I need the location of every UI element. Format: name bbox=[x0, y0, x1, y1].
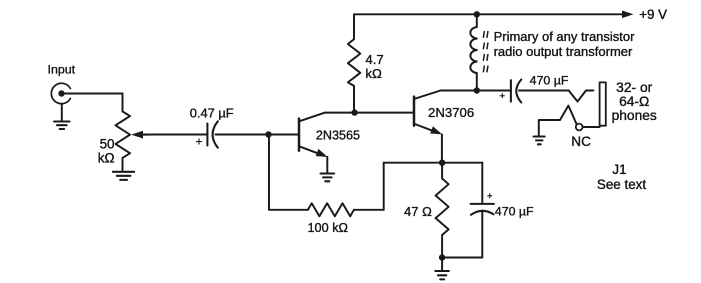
jack J1 tip spring contact bbox=[569, 91, 594, 102]
transformer T1 core marks bbox=[483, 32, 488, 72]
node B dot (Q1 collector / R2 bottom) bbox=[351, 109, 357, 115]
svg-text:Primary of any transistor: Primary of any transistor bbox=[494, 29, 636, 44]
node D dot (emitter node) bbox=[439, 160, 445, 166]
wire C1 to Q1 base bbox=[216, 134, 299, 136]
transistor Q2 emitter arrow bbox=[430, 126, 442, 134]
capacitor C2 curved plate bbox=[516, 80, 521, 103]
node dot rail/transformer bbox=[474, 11, 480, 17]
connector center pin dot bbox=[58, 90, 64, 96]
wire down to C3 top plate bbox=[481, 163, 483, 204]
svg-text:0.47 µF: 0.47 µF bbox=[190, 106, 234, 121]
svg-text:47 Ω: 47 Ω bbox=[404, 204, 432, 219]
connector J-input circle bbox=[51, 83, 70, 103]
svg-text:4.7: 4.7 bbox=[365, 52, 383, 67]
potentiometer R1 50k body bbox=[116, 94, 131, 172]
svg-text:470 µF: 470 µF bbox=[495, 204, 534, 218]
wire C3 bottom to node E bbox=[442, 211, 482, 258]
ground (emitter network) bbox=[435, 271, 449, 279]
jack J1 plug body bbox=[600, 82, 606, 125]
wire connector to ground bbox=[61, 104, 63, 122]
transistor Q2 emitter bbox=[415, 124, 440, 133]
svg-text:+: + bbox=[487, 191, 493, 202]
wire feedback bottom right segment bbox=[354, 209, 384, 211]
capacitor C2 470uF left plate bbox=[510, 80, 512, 101]
wire Q1 emitter to ground bbox=[326, 157, 328, 173]
transistor Q1 2N3565 base bar bbox=[298, 119, 301, 151]
svg-text:32- or: 32- or bbox=[616, 80, 652, 95]
transistor Q1 emitter arrow bbox=[316, 149, 328, 157]
ground (Q1 emitter) bbox=[321, 174, 335, 182]
capacitor C3 470uF top plate bbox=[471, 203, 494, 205]
node C dot (transformer bottom) bbox=[474, 87, 480, 93]
svg-text:+: + bbox=[500, 91, 506, 102]
svg-text:radio output transformer: radio output transformer bbox=[494, 44, 633, 59]
svg-text:2N3565: 2N3565 bbox=[316, 128, 360, 142]
wire Q2 emitter to node D bbox=[441, 134, 443, 162]
wire node C to C2 bbox=[477, 90, 511, 92]
transformer T1 primary winding bbox=[470, 27, 476, 73]
svg-text:2N3706: 2N3706 bbox=[428, 105, 474, 120]
wire wiper to capacitor C1 bbox=[143, 134, 207, 136]
capacitor C1 0.47uF left plate bbox=[206, 124, 208, 146]
svg-text:64-Ω: 64-Ω bbox=[619, 94, 649, 109]
transistor Q2 2N3706 base bar bbox=[413, 97, 416, 126]
wire node D left to feedback corner bbox=[384, 162, 442, 164]
ground (input) bbox=[54, 122, 70, 130]
capacitor C1 right curved plate bbox=[213, 121, 218, 147]
svg-text:470 µF: 470 µF bbox=[530, 74, 569, 88]
svg-text:phones: phones bbox=[612, 108, 657, 123]
arrowhead +9V bbox=[622, 11, 634, 19]
svg-text:kΩ: kΩ bbox=[98, 150, 115, 165]
ground (pot) bbox=[113, 172, 134, 180]
wire +9V rail bbox=[354, 13, 627, 15]
jack J1 NC spring contact bbox=[560, 106, 577, 125]
svg-text:+: + bbox=[196, 136, 203, 148]
wire input to pot top bbox=[65, 93, 123, 95]
wire rail to transformer T1 bbox=[476, 14, 478, 27]
resistor R2 4.7k bbox=[348, 14, 360, 112]
node E dot (bottom) bbox=[439, 254, 445, 260]
transistor Q1 emitter bbox=[300, 146, 325, 155]
jack J1 NC contact circle bbox=[576, 124, 583, 131]
wire NC circle to plug bbox=[583, 126, 600, 128]
potentiometer wiper arrow bbox=[142, 134, 150, 136]
svg-text:kΩ: kΩ bbox=[365, 66, 382, 81]
resistor R3 100k bbox=[308, 203, 354, 216]
ground (jack) bbox=[534, 137, 545, 145]
svg-text:Input: Input bbox=[48, 63, 76, 77]
wire feedback vertical left (to Q1 base) bbox=[268, 135, 270, 210]
node A dot (Q1 base) bbox=[265, 131, 271, 137]
resistor R4 47 ohm bbox=[436, 163, 449, 258]
wire feedback bottom left segment bbox=[269, 209, 308, 211]
svg-text:See text: See text bbox=[597, 177, 646, 192]
wire node E to ground bbox=[441, 258, 443, 271]
capacitor C3 curved plate bbox=[471, 211, 494, 215]
transistor Q1 collector bbox=[300, 113, 326, 122]
wire feedback vertical right bbox=[383, 163, 385, 210]
svg-text:50: 50 bbox=[100, 136, 115, 151]
wire transformer to node C bbox=[476, 73, 478, 91]
transistor Q2 collector bbox=[415, 91, 441, 99]
svg-text:J1: J1 bbox=[612, 162, 626, 177]
wire jack ground lead bbox=[539, 120, 560, 137]
wire C2 to jack tip spring bbox=[519, 90, 569, 92]
wire node D right to C3 bbox=[442, 162, 482, 164]
svg-text:+9 V: +9 V bbox=[639, 7, 667, 22]
svg-text:NC: NC bbox=[571, 134, 591, 149]
svg-text:100 kΩ: 100 kΩ bbox=[308, 221, 349, 235]
wire Q2 collector to node C bbox=[441, 90, 511, 92]
wire Q1 collector to Q2 base (node) bbox=[325, 112, 413, 114]
